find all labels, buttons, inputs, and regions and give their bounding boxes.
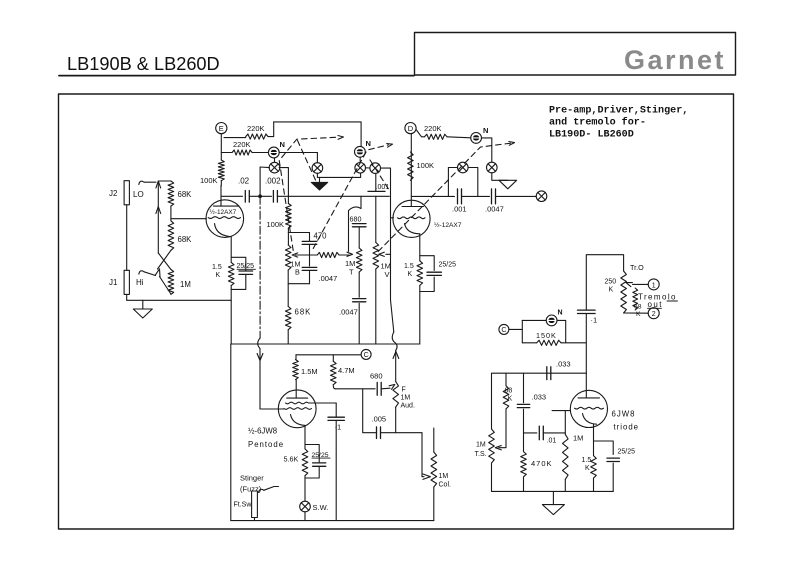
capacitor .0047 output <box>492 189 496 204</box>
label .001 output <box>452 205 467 214</box>
wire C to dividers <box>296 354 361 356</box>
label .0047 treble <box>339 308 358 317</box>
svg-text:½-6JW8: ½-6JW8 <box>248 427 277 436</box>
wire .005 right <box>381 432 423 434</box>
wire upper ground bus <box>231 343 420 345</box>
label 25/25 V3 <box>312 452 331 459</box>
svg-text:470K: 470K <box>531 459 553 468</box>
Garnet logo box <box>415 33 736 76</box>
pot 1M bass arrow left <box>292 253 298 257</box>
wire lamp2 to lamp3 node <box>317 176 360 178</box>
label 1.5K V4 <box>582 457 592 472</box>
Garnet logo text <box>624 45 726 75</box>
wire 25/25 V2 bottom <box>420 277 434 292</box>
label 470 <box>314 232 328 241</box>
svg-text:1.5: 1.5 <box>212 264 222 271</box>
resistor 1M treble <box>356 248 362 272</box>
tube V1 grid <box>208 217 240 219</box>
label 1M osc <box>573 434 583 443</box>
svg-text:Aud.: Aud. <box>401 403 415 410</box>
capacitor .1 trem <box>578 310 596 313</box>
wire 4.7M bottom node <box>333 385 335 389</box>
svg-text:.0047: .0047 <box>485 205 504 214</box>
jack J1 body <box>124 270 129 294</box>
title text LB190B & LB260D <box>67 54 220 74</box>
capacitor .1 screen <box>328 417 344 420</box>
schematic frame <box>59 94 734 529</box>
wire FtSw sleeve <box>254 518 256 521</box>
svg-text:F: F <box>402 387 406 394</box>
wire D to 220K right <box>416 130 424 137</box>
tube V2 cathode <box>405 224 420 234</box>
label N (N3) <box>483 126 488 135</box>
capacitor .033 osc <box>547 367 551 380</box>
wire down to lamp2 <box>316 153 318 163</box>
wire N2 to lamp3 <box>359 157 361 162</box>
svg-text:triode: triode <box>614 423 640 432</box>
svg-text:C: C <box>501 327 506 334</box>
wire .0047-T to bus <box>358 303 360 344</box>
jack J1 Hi label <box>136 278 144 287</box>
svg-text:V: V <box>385 270 390 279</box>
resistor 1.5K V4 <box>591 456 597 479</box>
resistor 68K mixer body <box>285 307 291 330</box>
svg-text:C: C <box>364 352 369 359</box>
wire cap.02 to node <box>249 195 258 197</box>
svg-text:½-12AX7: ½-12AX7 <box>210 208 237 216</box>
wire screen cap top <box>335 403 337 417</box>
label 220K right <box>424 124 442 133</box>
wire N4 right <box>557 320 566 342</box>
wire 1.5K V4 bottom <box>593 478 595 491</box>
wire cathode cap bottom V3 <box>305 466 319 478</box>
svg-text:6JW8: 6JW8 <box>612 410 636 419</box>
capacitor 25/25 V4 <box>607 458 619 461</box>
label 68K trem <box>634 304 642 319</box>
tube V4 cathode <box>583 414 597 425</box>
jack J2 label <box>109 189 118 198</box>
wire V4 cathode lead <box>594 424 614 454</box>
label 1M T <box>345 259 355 277</box>
svg-text:.033: .033 <box>532 393 547 402</box>
wire main to 680 cap <box>360 196 362 208</box>
svg-text:out: out <box>648 300 663 309</box>
label .0047 output <box>485 205 504 214</box>
ground (lamp5) <box>499 180 517 189</box>
svg-text:K: K <box>508 396 513 403</box>
resistor 100K interstage lead <box>287 196 289 203</box>
svg-text:.002: .002 <box>265 177 281 186</box>
wire 1M aud bottom <box>395 407 397 433</box>
label 1M Col <box>439 473 452 489</box>
label 1.5K V2 <box>404 263 414 278</box>
wire V2 cathode cap loop <box>420 256 434 271</box>
svg-text:J1: J1 <box>109 278 118 287</box>
wire lamp6 left <box>448 168 457 197</box>
wire 680 to 1M-T <box>358 227 360 248</box>
wire mix node right <box>335 388 375 390</box>
wire diagonal to 1M top <box>158 253 171 270</box>
svg-text:68K: 68K <box>295 308 312 317</box>
switch arrow up (J1) <box>155 269 160 277</box>
tube V2 plate <box>402 206 424 208</box>
svg-text:1.5M: 1.5M <box>301 367 318 376</box>
svg-text:1M: 1M <box>439 473 449 480</box>
resistor 1M volume top lead <box>375 196 377 242</box>
svg-text:25/25: 25/25 <box>618 449 636 456</box>
tube V3 grid2 <box>284 408 312 410</box>
wire 1M-B bottom link <box>288 283 309 285</box>
wire 470 top lead <box>309 233 311 242</box>
resistor 1.5M <box>293 360 299 380</box>
wire wiper to out1 <box>633 283 649 285</box>
wire .033-2 to 470K <box>523 409 525 451</box>
wire volume wiper <box>386 253 391 255</box>
svg-text:220K: 220K <box>233 140 251 149</box>
label 1.5K V1 <box>212 264 222 279</box>
wire N1 to lamp1 <box>274 158 276 162</box>
label S.W. <box>313 503 329 512</box>
label V3 Pentode <box>248 440 284 449</box>
wire between output caps <box>462 195 490 197</box>
wire to output terminal <box>496 195 537 197</box>
wire trem ground bus <box>492 490 614 492</box>
svg-text:½-12AX7: ½-12AX7 <box>434 221 462 229</box>
svg-text:K: K <box>408 271 413 278</box>
label 220K upper <box>247 124 265 133</box>
wire pentode grid <box>260 408 284 410</box>
node D terminal <box>405 123 416 134</box>
label .033 sec <box>532 393 547 402</box>
svg-text:LO: LO <box>133 190 144 199</box>
svg-text:.033: .033 <box>556 360 571 369</box>
wire .01 to 1M r <box>543 432 565 434</box>
label .0047 bass <box>319 274 338 283</box>
svg-text:E: E <box>219 124 224 133</box>
wire ground stem <box>142 300 144 309</box>
resistor 470K <box>521 452 527 477</box>
svg-text:.0047: .0047 <box>339 308 358 317</box>
wire 1M-B to 68K <box>287 270 289 307</box>
label .1 screen <box>335 423 342 432</box>
wire 68K osc to wiper <box>499 409 506 448</box>
caption text <box>549 105 688 141</box>
wire lamp2 bottom <box>316 173 318 177</box>
wire cathode cap loop V3 <box>305 445 319 463</box>
tube V2 label <box>434 221 462 229</box>
label .001 coupling <box>376 184 390 191</box>
label F 1M Aud <box>401 387 415 410</box>
svg-text:K: K <box>609 287 614 294</box>
svg-text:100K: 100K <box>267 220 285 229</box>
svg-text:220K: 220K <box>247 124 265 133</box>
svg-text:K: K <box>216 272 221 279</box>
svg-text:220K: 220K <box>424 124 442 133</box>
svg-text:1M: 1M <box>180 280 191 289</box>
wire 1.5k v4 top <box>593 441 595 456</box>
pot arrow TS <box>495 446 501 450</box>
wire 220K-1 up <box>268 122 274 137</box>
svg-text:.005: .005 <box>372 415 387 424</box>
wire C2 to 160K box <box>509 328 522 330</box>
svg-text:680: 680 <box>370 372 383 381</box>
wire lamp4 to cap <box>375 190 377 193</box>
lamp L1 <box>269 162 280 173</box>
wire 1M-T down <box>358 272 360 297</box>
wire lamp4 right <box>381 168 391 196</box>
resistor 68K lower <box>168 221 174 251</box>
wire screen stub <box>309 402 336 404</box>
svg-text:1.5: 1.5 <box>582 457 592 464</box>
lamp L5 <box>487 162 498 173</box>
wire V1 cathode lead <box>230 237 232 263</box>
svg-text:N: N <box>483 126 488 135</box>
label 1M TS <box>475 442 487 459</box>
capacitor .005 <box>377 427 381 439</box>
svg-text:Pentode: Pentode <box>248 440 284 449</box>
label 100K V2 <box>417 161 435 170</box>
node C2 terminal <box>499 324 509 334</box>
lamp SW <box>300 501 311 512</box>
resistor 1M aud <box>393 382 399 408</box>
resistor 220K upper <box>246 134 268 139</box>
jack FtSw contact <box>259 489 265 492</box>
capacitor .001 coupling top plate <box>368 190 385 192</box>
svg-text:25/25: 25/25 <box>439 262 457 269</box>
label 1M input <box>180 280 191 289</box>
wire ground stem (lamp2) <box>319 177 321 182</box>
wire J1 tip to arrow <box>144 272 155 276</box>
wire 1M TS bottom <box>491 463 493 491</box>
wire V3 cathode lead <box>304 425 306 449</box>
resistor 100K V2 plate <box>408 152 414 180</box>
label 680 treble <box>350 215 362 224</box>
label .02 <box>238 177 250 186</box>
capacitor 25/25 V1 <box>239 271 253 274</box>
tube V1 cathode <box>215 224 230 237</box>
wire lamp3 to lamp4 <box>366 167 370 169</box>
wire N1 right <box>279 152 317 154</box>
svg-text:Stinger: Stinger <box>240 474 264 483</box>
capacitor .002 <box>273 191 277 203</box>
pot arrow right (to T) <box>347 252 353 256</box>
wire 680 left leg <box>348 211 350 252</box>
label 25/25 V2 <box>439 262 457 269</box>
wire .005 left <box>363 389 377 433</box>
jack J2 LO label <box>133 190 144 199</box>
node junction dot <box>258 194 262 198</box>
wire bass zigzag right <box>339 254 349 256</box>
wire V2 plate lead <box>410 134 412 207</box>
label 68K mixer <box>295 308 312 317</box>
label 160K <box>536 331 557 340</box>
jack J1 tip contact <box>139 271 144 274</box>
label .002 <box>265 177 281 186</box>
resistor 5.6K <box>302 449 308 476</box>
pot 1M bass body <box>285 228 291 270</box>
resistor 1M volume <box>373 242 379 269</box>
svg-text:N: N <box>366 139 371 148</box>
svg-text:.0047: .0047 <box>319 274 338 283</box>
pot arrow aud <box>389 384 395 389</box>
stinger linkage dashed left ground branch <box>298 141 316 181</box>
svg-text:Tr.O: Tr.O <box>630 263 644 272</box>
pot 1M TS <box>489 429 495 463</box>
tube V4 envelope <box>570 390 607 427</box>
resistor 1M input <box>168 270 174 295</box>
resistor 1.5K V2 <box>417 261 423 286</box>
label N (N4) <box>558 310 563 317</box>
svg-text:LB190D- LB260D: LB190D- LB260D <box>549 130 634 141</box>
pot 250K body <box>621 271 627 313</box>
wire lamp1 right bridge <box>279 168 288 197</box>
resistor 1M osc <box>563 434 569 479</box>
resistor 68K osc <box>503 386 509 409</box>
svg-text:Col.: Col. <box>439 482 452 489</box>
capacitor .0047 bass <box>302 267 317 270</box>
wire grid stub V2 <box>391 217 394 219</box>
neon N4 <box>546 315 557 326</box>
capacitor .001 output <box>458 189 462 204</box>
wire osc feedback left <box>492 373 587 429</box>
wire screen cap bottom <box>335 420 337 520</box>
svg-text:Pre-amp,Driver,Stinger,: Pre-amp,Driver,Stinger, <box>549 105 688 117</box>
svg-text:K: K <box>636 311 641 318</box>
resistor 100K body <box>286 204 292 229</box>
tube V3 envelope <box>278 390 316 428</box>
svg-text:68: 68 <box>634 304 642 311</box>
svg-text:4.7M: 4.7M <box>338 366 355 375</box>
wire lamp SW to bus <box>304 512 306 521</box>
label 25/25 V4 <box>618 449 636 456</box>
tube V1 envelope <box>206 200 244 238</box>
tube V3 grid1 <box>286 402 309 404</box>
resistor 1M col top <box>433 428 435 452</box>
wire V1 plate to caps <box>221 195 242 197</box>
wire trem vert mid <box>585 314 587 374</box>
svg-text:Garnet: Garnet <box>624 45 726 75</box>
wire V1 cathode cap loop <box>231 257 246 270</box>
ground (tremolo) <box>542 505 564 515</box>
label 68K upper <box>178 190 193 199</box>
node grid junction <box>170 206 172 221</box>
ground (input) <box>133 309 152 318</box>
wire node to cap.002 <box>262 195 272 197</box>
label N (N1) <box>280 140 285 149</box>
svg-text:.01: .01 <box>547 438 557 445</box>
neon N1 <box>268 147 279 158</box>
wire 1.5M to pentode <box>295 380 297 399</box>
capacitor 680 treble <box>352 224 366 227</box>
wire V4 plate lead <box>585 373 587 398</box>
svg-text:LB190B & LB260D: LB190B & LB260D <box>67 54 220 74</box>
wire E to 220K-2 <box>221 152 232 154</box>
svg-text:S.W.: S.W. <box>313 503 329 512</box>
resistor 160K <box>537 340 561 345</box>
wire 1M osc bottom <box>564 479 566 491</box>
capacitor .033 sec <box>517 404 529 407</box>
svg-text:.02: .02 <box>238 177 250 186</box>
stinger linkage dashed right <box>378 142 514 252</box>
wire main signal <box>277 195 389 197</box>
wire stinger feed arrow <box>257 354 263 361</box>
label V3 type <box>248 427 277 436</box>
label Fuzz <box>240 485 262 494</box>
svg-text:·1: ·1 <box>591 316 598 325</box>
wire 25/25 V1 bottom <box>231 275 246 290</box>
wire lamp3 bottom <box>360 173 362 177</box>
tube V2 envelope <box>393 200 430 237</box>
wire grid column V2 <box>391 196 394 332</box>
wire J1 sleeve down <box>126 294 128 300</box>
wire V1 plate lead <box>220 186 222 207</box>
tube V1 plate <box>214 205 240 207</box>
resistor 68K upper <box>168 181 174 206</box>
label 68K lower <box>178 235 193 244</box>
node E terminal <box>216 123 227 134</box>
wire 160K to trem vert <box>561 342 586 344</box>
svg-text:Ft.Sw: Ft.Sw <box>234 502 253 509</box>
wire N3 to lamp5 <box>482 138 492 162</box>
tube V1 label <box>210 208 237 216</box>
label .005 <box>372 415 387 424</box>
wire lamp6 right bridge <box>468 168 478 197</box>
wire 25/25 V4 bottom <box>612 463 614 491</box>
svg-text:1M: 1M <box>476 442 486 449</box>
svg-text:2: 2 <box>652 311 656 318</box>
title underline <box>59 75 414 77</box>
label 1M V <box>381 262 391 280</box>
label 68K osc <box>505 388 513 403</box>
wire 470 down <box>309 244 311 266</box>
svg-text:J2: J2 <box>109 189 118 198</box>
wire 220K to N3 <box>447 137 471 138</box>
pot arrow col <box>423 474 431 479</box>
wire .033-2 top <box>523 373 525 403</box>
tube V4 plate <box>578 397 600 399</box>
wire .0047 bass down <box>309 270 311 283</box>
label 4.7M <box>338 366 355 375</box>
svg-text:N: N <box>558 310 563 317</box>
wire node down (stinger feed) <box>258 196 260 348</box>
wire col wiper <box>422 433 424 477</box>
node tremolo out 1 <box>648 279 659 290</box>
label .1 trem <box>591 316 598 325</box>
label 5.6K <box>284 455 299 464</box>
resistor 220K lower <box>232 150 252 155</box>
stinger linkage dashed mid <box>313 144 392 249</box>
wire E node to 220K-1 <box>224 137 246 139</box>
label 680 stinger <box>370 372 383 381</box>
svg-text:D: D <box>408 124 414 133</box>
wire FtSw to cathode <box>264 487 279 491</box>
label V4 type <box>612 410 636 419</box>
resistor 68K trem <box>633 288 638 310</box>
svg-text:680: 680 <box>350 215 362 224</box>
wire E to junction <box>220 134 222 160</box>
svg-text:Hi: Hi <box>136 278 144 287</box>
capacitor 680 stinger <box>377 382 381 395</box>
resistor 1.5K V1 <box>228 262 234 285</box>
switch arrow mid <box>156 207 161 214</box>
svg-text:68K: 68K <box>178 190 193 199</box>
svg-text:T.S.: T.S. <box>475 451 487 458</box>
lamp L3 <box>355 163 366 174</box>
wire 680 to pot arrow <box>381 387 390 390</box>
resistor 220K right <box>425 134 448 139</box>
capacitor 25/25 V3 <box>313 463 326 466</box>
pot 250K wiper arrow <box>626 283 632 287</box>
